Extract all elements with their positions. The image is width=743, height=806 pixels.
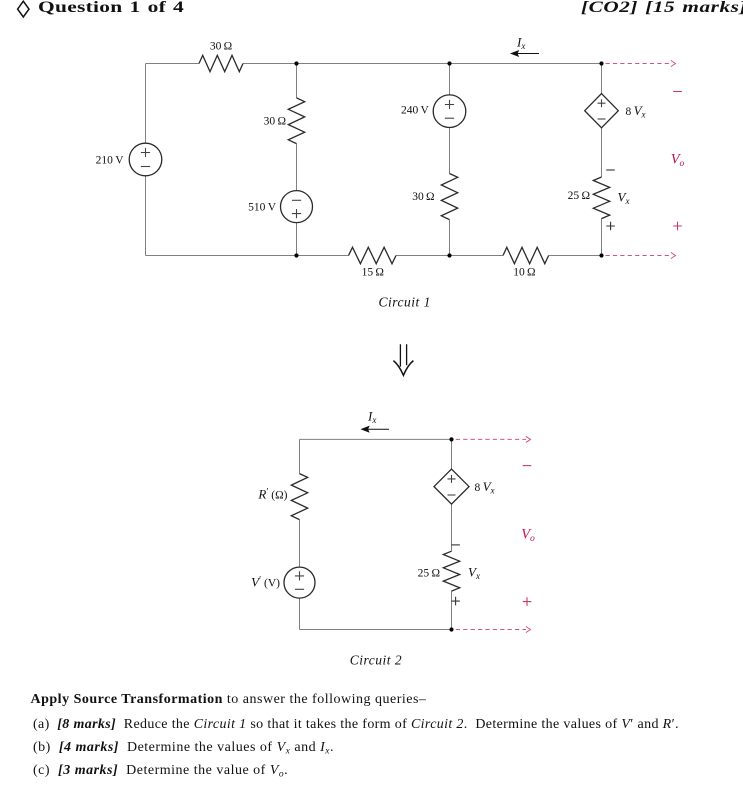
svg-text:210 V: 210 V xyxy=(96,154,125,166)
svg-text:R′ (Ω): R′ (Ω) xyxy=(257,486,287,501)
svg-text:Vx: Vx xyxy=(468,564,480,581)
svg-text:30 Ω: 30 Ω xyxy=(210,41,232,53)
svg-text:Vx: Vx xyxy=(618,190,630,207)
svg-text:Vo: Vo xyxy=(671,152,685,170)
svg-text:30 Ω: 30 Ω xyxy=(264,115,286,127)
svg-text:8 Vx: 8 Vx xyxy=(626,103,646,120)
svg-text:240 V: 240 V xyxy=(401,104,430,116)
svg-text:25 Ω: 25 Ω xyxy=(568,190,590,202)
svg-text:Ix: Ix xyxy=(367,409,376,426)
svg-text:V′ (V): V′ (V) xyxy=(251,574,280,589)
svg-text:Vo: Vo xyxy=(521,526,535,544)
svg-text:30 Ω: 30 Ω xyxy=(412,191,434,203)
svg-text:10 Ω: 10 Ω xyxy=(513,266,535,278)
svg-text:510 V: 510 V xyxy=(248,201,277,213)
svg-text:25 Ω: 25 Ω xyxy=(418,567,440,579)
svg-text:8 Vx: 8 Vx xyxy=(475,479,495,496)
svg-text:Ix: Ix xyxy=(516,35,525,52)
svg-text:15 Ω: 15 Ω xyxy=(362,266,384,278)
svg-text:Circuit 1: Circuit 1 xyxy=(379,294,431,309)
svg-text:Circuit 2: Circuit 2 xyxy=(350,653,402,668)
